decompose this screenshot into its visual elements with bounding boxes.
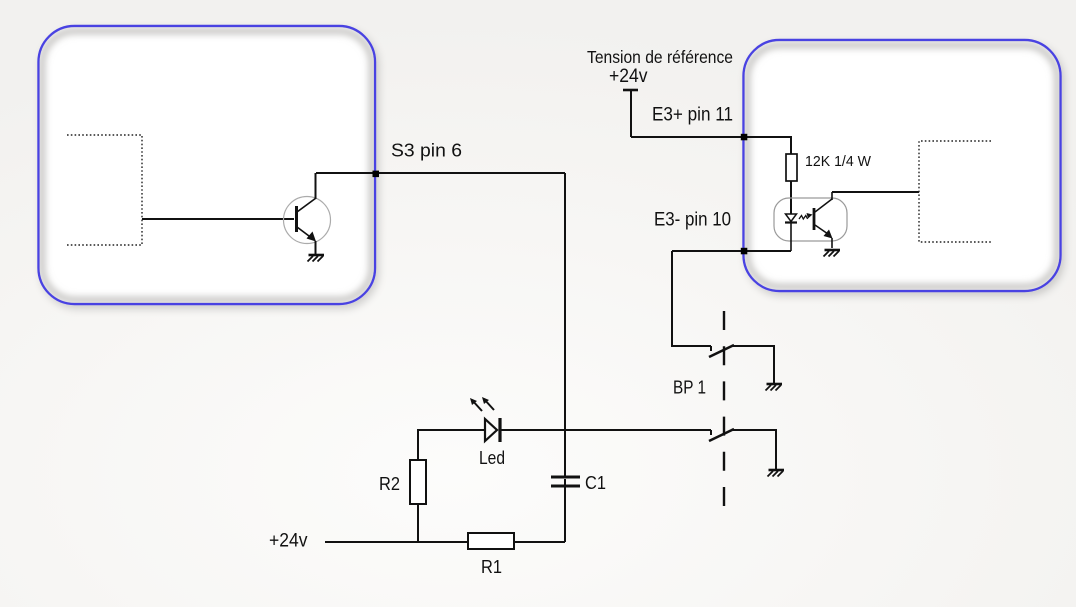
svg-text:+24v: +24v: [269, 531, 308, 552]
connector J2 (right module, dotted bracket): [919, 141, 991, 242]
wire (LED cathode to switch BP1b): [500, 429, 711, 431]
LED D1: [470, 397, 500, 442]
module box right (PLC input module): [744, 40, 1061, 291]
wire (R2 top to LED anode): [418, 430, 485, 460]
wire (C1 bottom to +24v rail): [564, 486, 566, 542]
wire (BP1b to ground): [733, 430, 776, 469]
svg-text:R1: R1: [481, 556, 502, 577]
switch BP1b (lower contact): [709, 429, 734, 441]
label C1: [585, 472, 606, 493]
resistor R3 12K 1/4W: [786, 154, 797, 181]
connector J1 (left module, dotted bracket): [67, 135, 142, 245]
transistor Q1 (NPN, left module): [284, 173, 331, 255]
resistor R1: [468, 533, 514, 549]
light coupling arrow (squiggle): [799, 213, 813, 219]
svg-text:S3 pin 6: S3 pin 6: [391, 140, 462, 161]
wire (BP1a to ground): [733, 346, 774, 383]
power symbol +24v (bar): [623, 90, 638, 137]
svg-text:R2: R2: [379, 473, 400, 494]
wire (rail junction up to R2): [417, 504, 419, 542]
push-button actuator (dashed link BP1): [723, 311, 725, 516]
ground (Q2 emitter, chassis): [824, 250, 841, 257]
wire (E3+ to 12K resistor): [631, 137, 791, 154]
node S3 pin 6 (junction): [373, 171, 380, 178]
ground (BP1b, chassis): [768, 470, 785, 477]
capacitor C1: [551, 477, 580, 486]
label E3+ pin 11: [652, 105, 733, 126]
wire (E3- down to switch BP1a): [672, 251, 711, 346]
switch BP1a (upper contact): [709, 345, 734, 357]
optocoupler U1 (body): [774, 198, 847, 241]
label Led: [479, 447, 505, 468]
wire (base of Q1): [142, 218, 294, 220]
svg-text:Led: Led: [479, 447, 505, 468]
optocoupler LED (inside U1): [785, 214, 797, 251]
svg-text:Tension de référence: Tension de référence: [587, 47, 733, 67]
svg-text:E3+ pin 11: E3+ pin 11: [652, 105, 733, 126]
label +24v (reference): [609, 66, 648, 87]
label E3- pin 10: [654, 210, 731, 231]
svg-text:E3- pin 10: E3- pin 10: [654, 210, 731, 231]
wire (+24v rail to R1): [325, 541, 468, 543]
node E3- pin 10 (junction): [741, 248, 748, 255]
resistor R2: [410, 460, 426, 504]
label Tension de référence: [587, 47, 733, 67]
label R2: [379, 473, 400, 494]
svg-text:12K 1/4 W: 12K 1/4 W: [805, 153, 872, 170]
label +24v (bottom rail): [269, 531, 308, 552]
ground (Q1 emitter, chassis): [308, 255, 325, 262]
module box left (PLC output module): [39, 26, 376, 304]
wire (12K to optocoupler LED): [790, 181, 792, 214]
label 12K 1/4 W: [805, 153, 872, 170]
phototransistor Q2 (inside U1): [814, 192, 833, 248]
wire (Q1 collector to node S3): [316, 172, 565, 174]
label R1: [481, 556, 502, 577]
label S3 pin 6: [391, 140, 462, 161]
wire (E3- rail): [672, 250, 791, 252]
ground (BP1a, chassis): [766, 384, 783, 391]
svg-text:BP 1: BP 1: [673, 377, 706, 398]
label BP 1: [673, 377, 706, 398]
svg-text:C1: C1: [585, 472, 606, 493]
node E3+ pin 11 (junction): [741, 134, 748, 141]
wire (R1 to C1 bottom corner): [514, 541, 565, 543]
wire (vertical from S3 node down to C1): [564, 173, 566, 476]
svg-text:+24v: +24v: [609, 66, 648, 87]
wire (Q2 collector to connector J2): [832, 191, 919, 193]
